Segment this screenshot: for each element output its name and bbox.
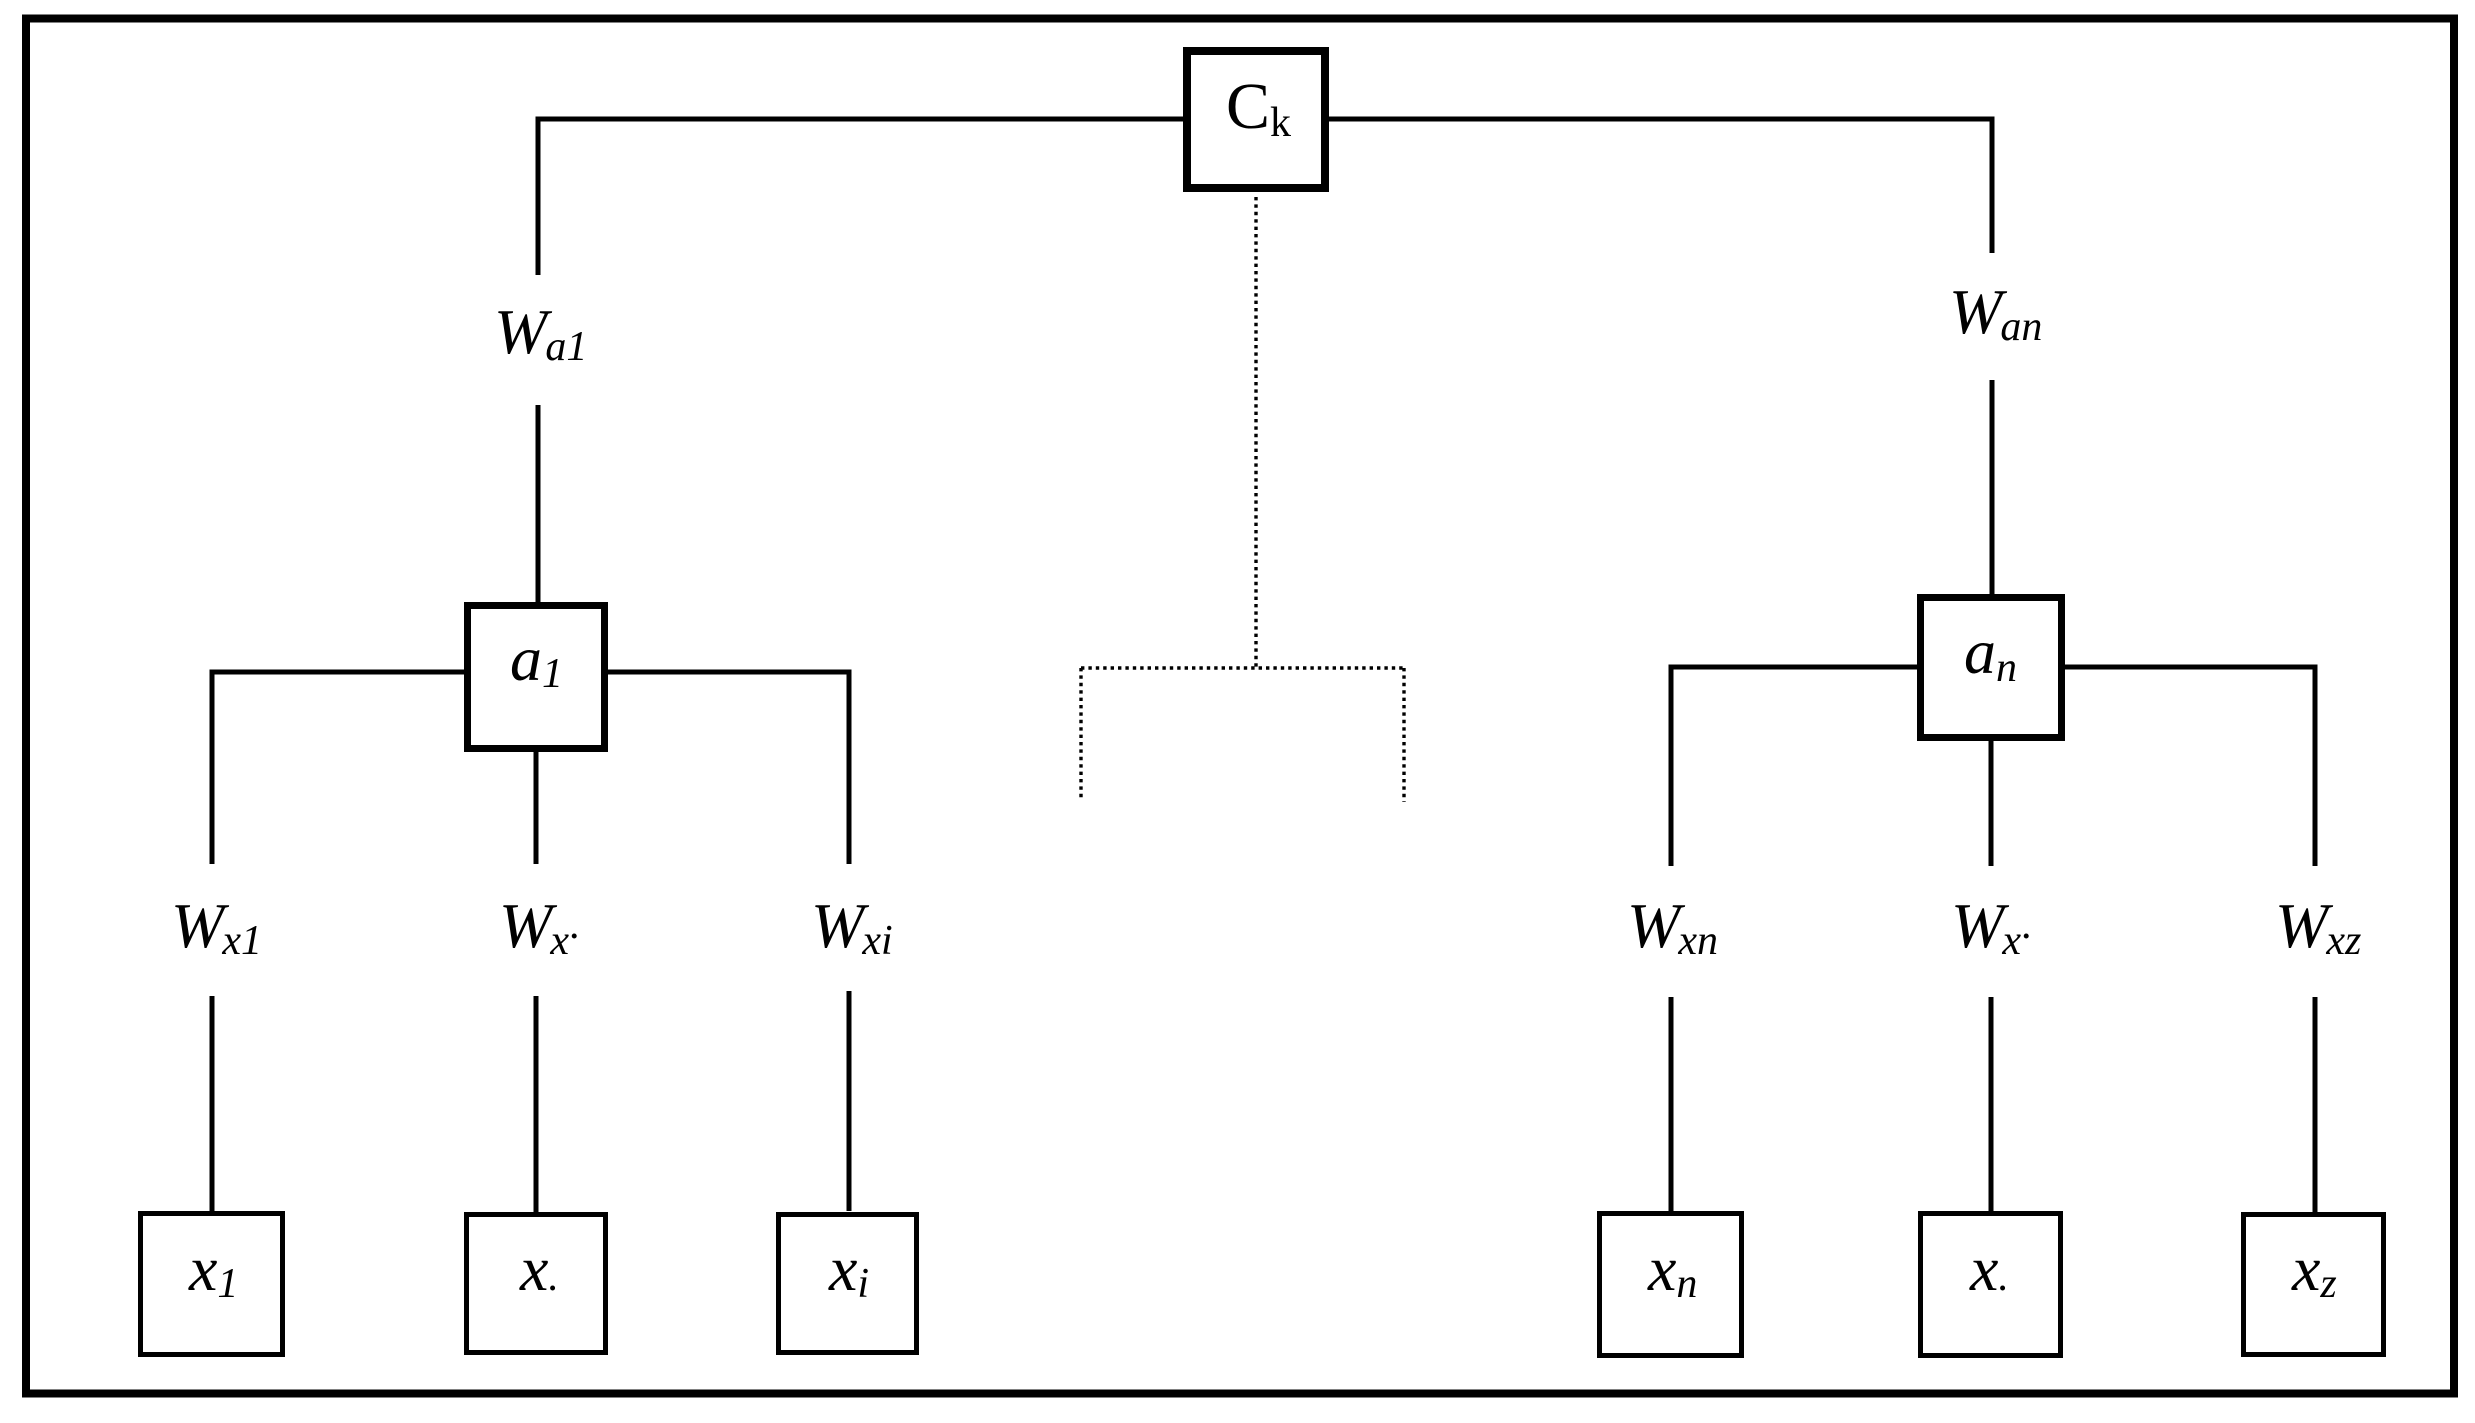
dotted vertical from Ck	[1254, 197, 1257, 668]
wire column xdot-left lower	[534, 996, 539, 1212]
node xdot-right box	[1921, 1214, 2061, 1356]
wire column x1 lower	[210, 996, 215, 1211]
wire column xn lower	[1669, 997, 1674, 1211]
wire an right horizontal	[2065, 665, 2318, 670]
wire column xz lower	[2313, 997, 2318, 1212]
wire top horizontal right from Ck	[1329, 117, 1995, 122]
node an box	[1921, 598, 2062, 738]
wire left vertical lower segment	[536, 405, 541, 602]
dotted bracket horizontal	[1081, 666, 1404, 669]
wire a1 right horizontal	[608, 670, 852, 675]
wire column xdot-right upper	[1989, 741, 1994, 866]
wire left vertical upper segment	[536, 117, 541, 276]
wire an left horizontal	[1669, 665, 1918, 670]
wire column xn upper	[1669, 665, 1674, 867]
node xz box	[2244, 1215, 2384, 1355]
wire column xdot-right lower	[1989, 997, 1994, 1211]
wire column xi lower	[847, 991, 852, 1211]
node Ck box	[1187, 51, 1325, 188]
wire a1 left horizontal	[210, 670, 465, 675]
wire right vertical lower segment	[1990, 380, 1995, 594]
dotted bracket right vertical	[1402, 668, 1405, 802]
wire column xz upper	[2313, 665, 2318, 867]
node a1 box	[468, 606, 605, 749]
node xi box	[779, 1215, 917, 1353]
wire column xdot-left upper	[534, 752, 539, 864]
wire right vertical upper segment	[1990, 117, 1995, 254]
node xdot-left box	[467, 1215, 606, 1353]
wire top horizontal left from Ck	[536, 117, 1184, 122]
dotted bracket left vertical	[1079, 668, 1082, 801]
node x1 box	[141, 1214, 283, 1355]
wire column x1 upper	[210, 670, 215, 865]
wire column xi upper	[847, 670, 852, 865]
node xn box	[1600, 1214, 1742, 1356]
